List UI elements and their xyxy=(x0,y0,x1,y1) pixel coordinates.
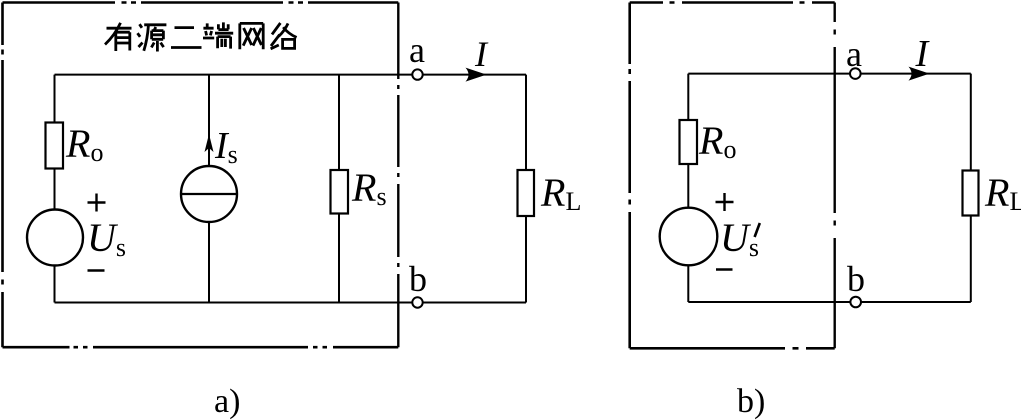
resistor Rs (a) xyxy=(331,170,349,214)
resistor RL (b) xyxy=(963,171,979,216)
wire: load branch circuit a xyxy=(525,75,527,303)
wire: right branch circuit a xyxy=(338,75,340,303)
wire: bottom rail circuit a xyxy=(55,302,527,304)
svg-text:RL: RL xyxy=(984,170,1021,216)
wire: bottom rail circuit b xyxy=(688,301,971,303)
terminal a (a) xyxy=(412,69,422,79)
svg-text:Is: Is xyxy=(214,125,238,169)
svg-text:RL: RL xyxy=(540,170,581,216)
svg-text:I: I xyxy=(474,34,489,74)
wire: left branch circuit a xyxy=(54,75,56,303)
terminal a (b) xyxy=(850,68,861,79)
svg-text:I: I xyxy=(915,33,931,75)
resistor Ro (a) xyxy=(46,123,64,169)
terminal b (b) xyxy=(850,297,861,308)
svg-text:b): b) xyxy=(737,383,765,420)
label minus of Us' (b) xyxy=(716,268,733,271)
svg-text:Us: Us xyxy=(720,215,759,262)
network box b) dash-dot right border xyxy=(834,3,836,349)
wire: top rail circuit b xyxy=(688,73,971,75)
resistor RL (a) xyxy=(518,170,535,216)
network box b) dash-dot top border xyxy=(630,1,835,4)
current arrow I (a) xyxy=(466,68,487,82)
svg-text:a: a xyxy=(846,34,862,74)
wire: top rail circuit a xyxy=(55,74,527,76)
network box b) dash-dot left border xyxy=(628,3,631,349)
network box a) dash-dot left border xyxy=(1,3,4,348)
svg-text:Ro: Ro xyxy=(65,121,103,167)
network box a) dash-dot right border xyxy=(397,3,399,348)
current arrow I (b) xyxy=(909,67,930,81)
resistor Ro (b) xyxy=(680,120,698,164)
wire: load branch circuit b xyxy=(970,74,972,302)
svg-text:a: a xyxy=(409,30,425,70)
diameter line of Is (a) xyxy=(181,193,237,195)
wire: left branch circuit b xyxy=(687,74,689,302)
terminal b (a) xyxy=(412,297,422,307)
label + of Us (a) xyxy=(88,194,106,212)
svg-text:Rs: Rs xyxy=(351,165,387,211)
svg-text:Ro: Ro xyxy=(698,118,736,164)
network box a) dash-dot bottom border xyxy=(3,346,399,349)
svg-text:b: b xyxy=(409,259,427,299)
voltage source Us (a) xyxy=(27,210,83,266)
svg-text:Us: Us xyxy=(87,215,126,262)
label minus of Us (a) xyxy=(88,269,105,272)
network box a) dash-dot top border xyxy=(3,1,399,4)
svg-text:a): a) xyxy=(214,383,240,420)
prime of Us' (b) xyxy=(755,223,760,237)
current source Is (a) xyxy=(181,166,237,222)
title 有源二端网络 (hand-drawn strokes) xyxy=(105,22,297,51)
arrow of Is (a) xyxy=(205,134,214,152)
label + of Us' (b) xyxy=(716,193,734,211)
wire: middle branch circuit a xyxy=(208,75,210,303)
voltage source Us' (b) xyxy=(660,208,718,266)
network box b) dash-dot bottom border xyxy=(630,347,835,350)
svg-text:b: b xyxy=(847,259,865,299)
